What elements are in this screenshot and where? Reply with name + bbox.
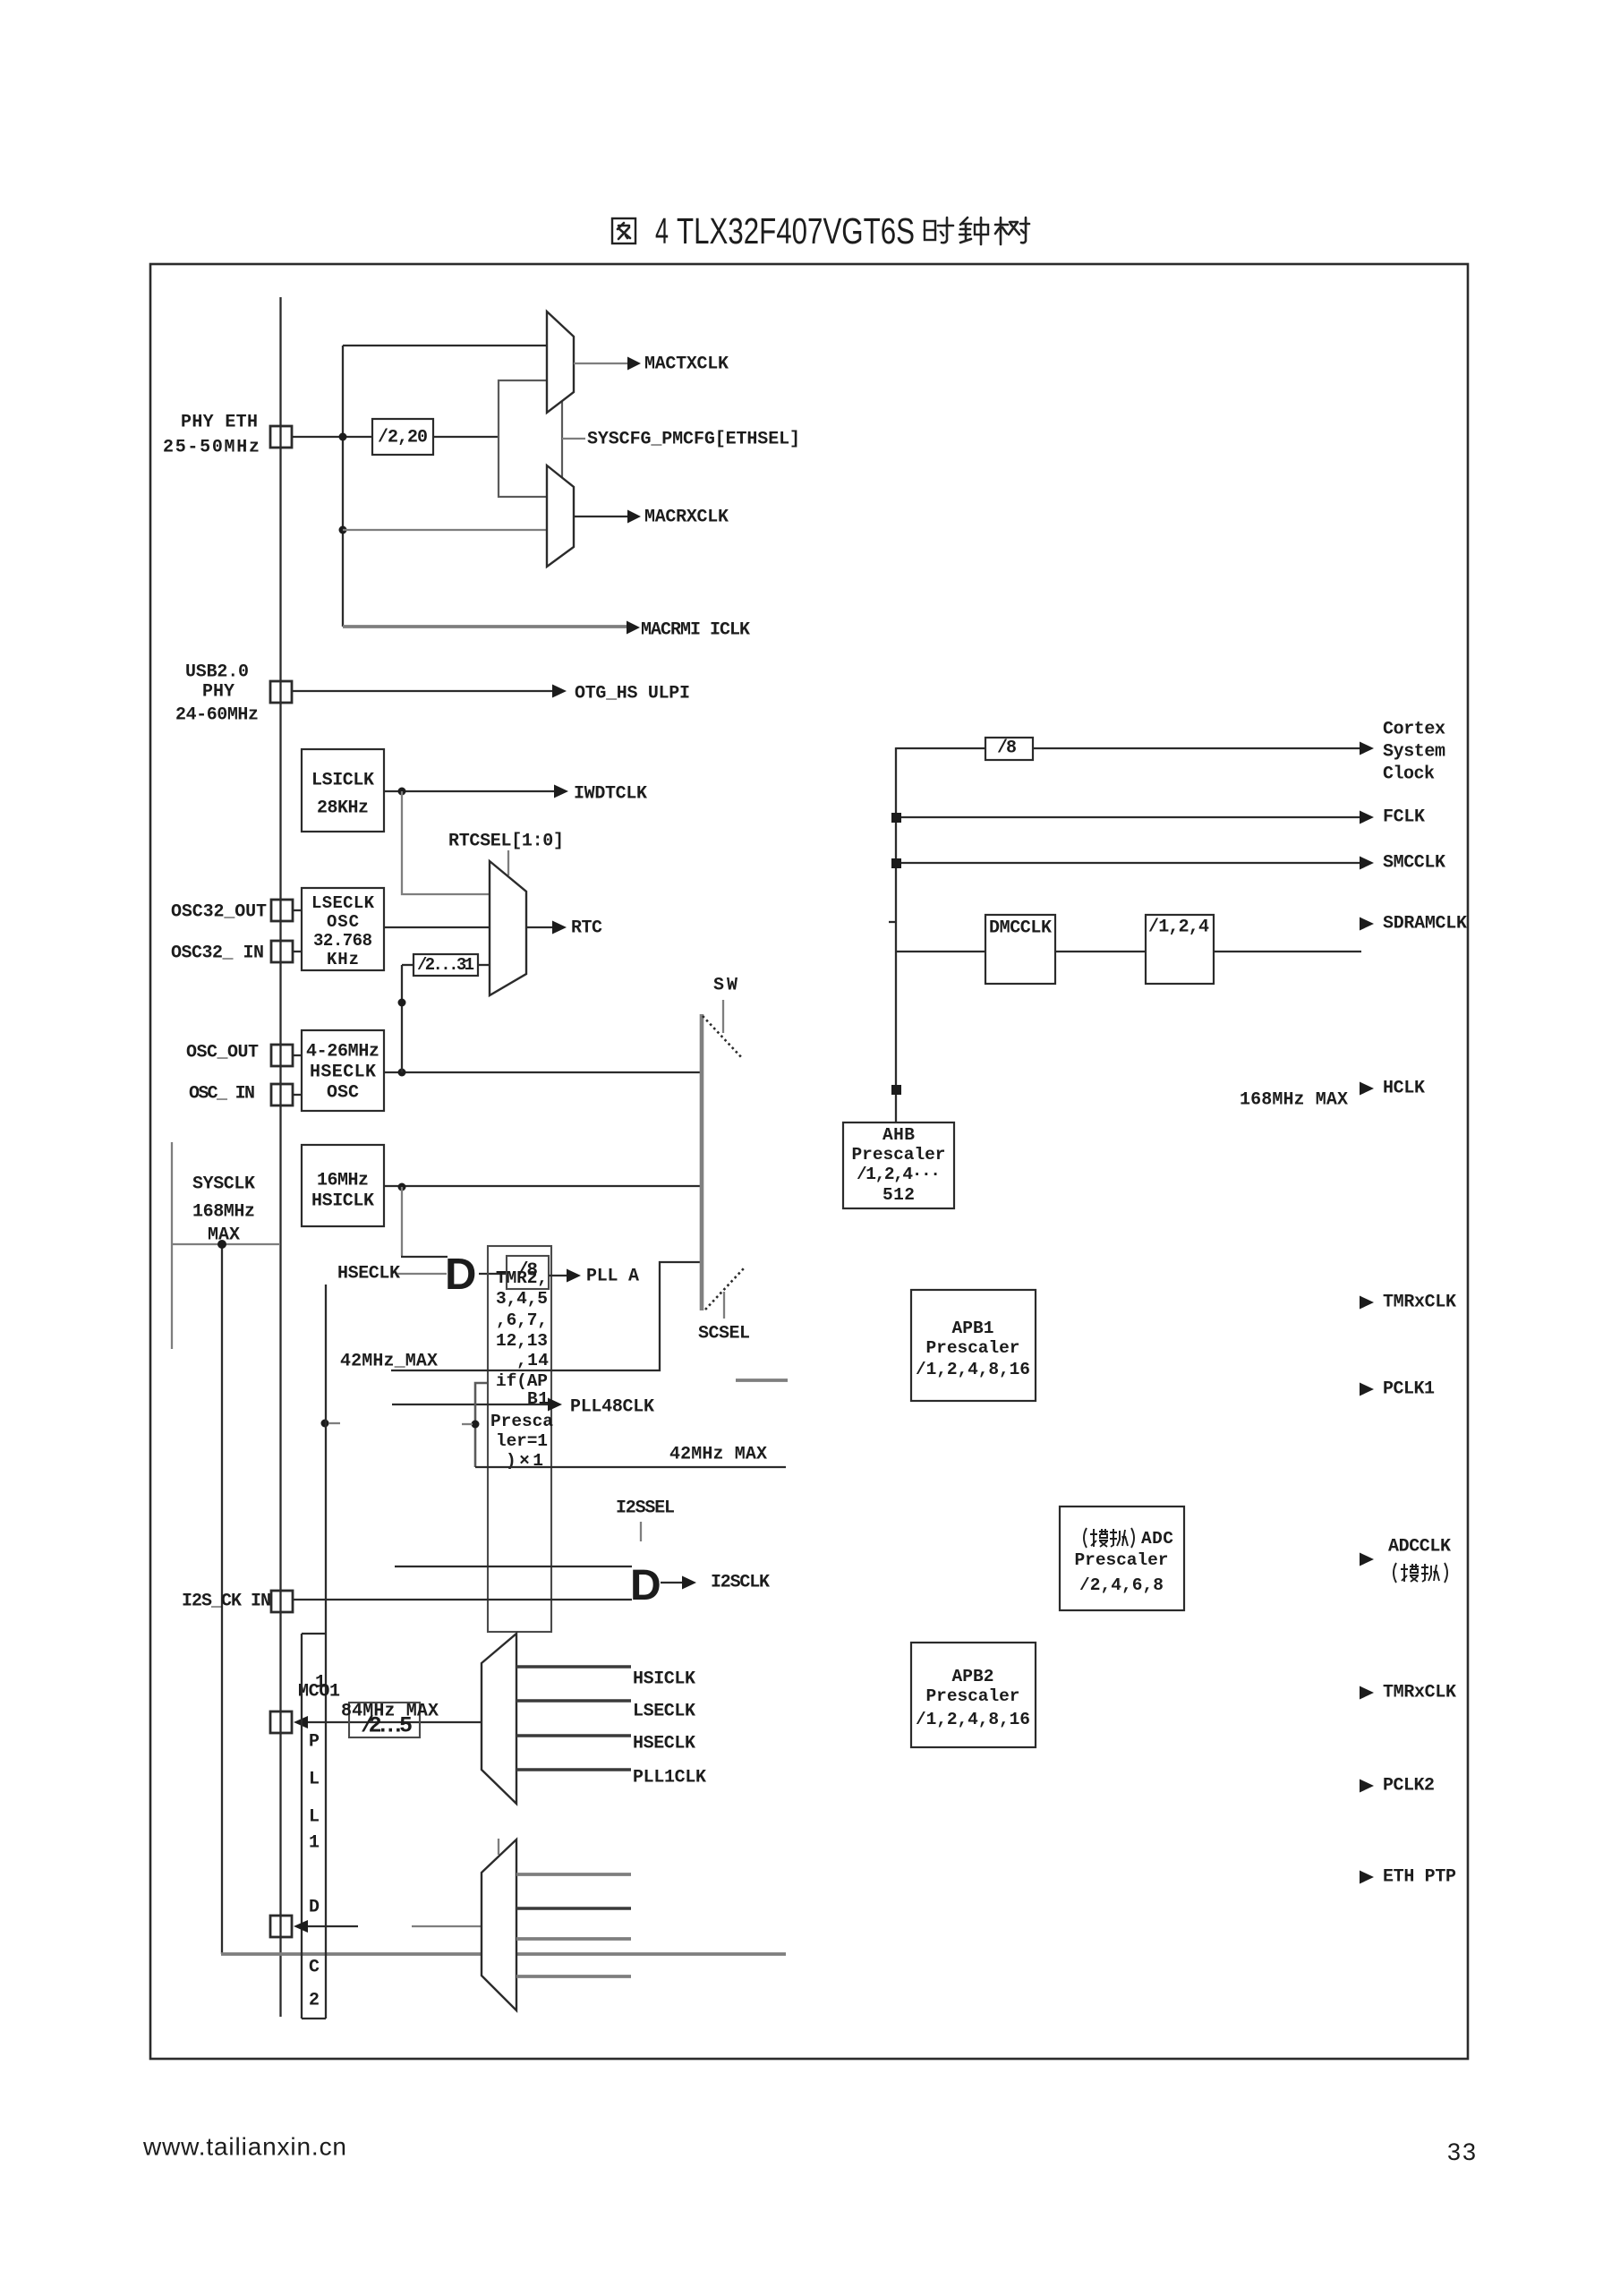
svg-text:LSECLK: LSECLK (311, 893, 375, 913)
wire MCO2 output (294, 1920, 308, 1933)
glyph 钟 (959, 218, 971, 243)
svg-text:MACRMI ICLK: MACRMI ICLK (641, 620, 750, 641)
wire PLL48CLK (392, 1404, 548, 1405)
svg-text:HSECLK: HSECLK (337, 1264, 400, 1285)
svg-text:Clock: Clock (1383, 764, 1435, 785)
svg-text:HSICLK: HSICLK (633, 1669, 695, 1690)
wire gray stub right (736, 1378, 788, 1382)
svg-text:512: 512 (882, 1185, 915, 1205)
svg-text:/1,2,4,8,16: /1,2,4,8,16 (916, 1360, 1030, 1379)
svg-text:24-60MHz: 24-60MHz (175, 705, 259, 726)
svg-text:MCO1: MCO1 (298, 1682, 340, 1703)
label MCO2 pad (270, 1916, 292, 1937)
svg-text:HSECLK: HSECLK (633, 1734, 695, 1754)
svg-text:I2SSEL: I2SSEL (616, 1498, 675, 1519)
block divider /8 small box (507, 1256, 549, 1289)
mux MCO2 (482, 1839, 516, 2010)
svg-text:OSC: OSC (327, 912, 359, 932)
svg-text:KHz: KHz (327, 950, 359, 969)
svg-text:42MHz_MAX: 42MHz_MAX (340, 1352, 438, 1372)
svg-text:www.tailianxin.cn: www.tailianxin.cn (142, 2133, 346, 2161)
pad OSC_OUT (271, 1045, 293, 1066)
svg-text:/1,2,4···: /1,2,4··· (857, 1165, 941, 1184)
wire ETH branch vertical (342, 346, 344, 627)
block 16MHz HSICLK (302, 1145, 384, 1226)
wire HSE up to divider (401, 965, 403, 1072)
mux MACRXCLK (547, 465, 574, 567)
node ETHSEL select rect (499, 380, 562, 497)
svg-text:33: 33 (1447, 2138, 1476, 2165)
svg-text:TMRxCLK: TMRxCLK (1383, 1683, 1456, 1703)
wire PCLK1 (1360, 1383, 1374, 1396)
wire I2SCLK (661, 1582, 682, 1583)
svg-text:RTC: RTC (571, 918, 602, 939)
svg-text:/1,2,4,8,16: /1,2,4,8,16 (916, 1710, 1030, 1729)
svg-text:/2,4,6,8: /2,4,6,8 (1079, 1575, 1164, 1595)
svg-text:32.768: 32.768 (313, 931, 372, 951)
mux RTC RTCSEL (490, 861, 526, 995)
block 4-26MHz HSECLK OSC (302, 1030, 384, 1111)
wire IWDTCLK (384, 790, 554, 792)
wire PLL A output (549, 1275, 567, 1276)
svg-text:L: L (309, 1807, 320, 1828)
svg-text:OSC_ IN: OSC_ IN (189, 1084, 255, 1105)
svg-text:3,4,5: 3,4,5 (496, 1289, 548, 1309)
svg-text:12,13: 12,13 (496, 1331, 548, 1351)
mux SW selector dash (703, 1016, 743, 1059)
svg-text:,14: ,14 (516, 1351, 549, 1370)
block divider /2,20 (372, 419, 433, 455)
svg-text:,6,7,: ,6,7, (496, 1310, 548, 1330)
node SDRAM tick (889, 921, 896, 923)
svg-text:/8: /8 (997, 738, 1017, 759)
svg-text:SDRAMCLK: SDRAMCLK (1383, 914, 1467, 935)
pad MCO1 (270, 1711, 292, 1733)
svg-text:B1: B1 (527, 1389, 549, 1409)
label PLL1 D C2 vertical (309, 1732, 320, 2011)
wire 42MHz line to SW (391, 1262, 702, 1370)
wire bottom long line (221, 1952, 786, 1956)
svg-text:PHY ETH: PHY ETH (181, 413, 258, 433)
wire SYSCLK tap (172, 1243, 280, 1245)
svg-text:/2...5: /2...5 (361, 1713, 413, 1739)
mux SCSEL selector dash (705, 1268, 744, 1310)
label SCSEL (723, 1292, 725, 1319)
wire PLL1 vertical line (325, 1285, 327, 2019)
svg-text:Prescaler: Prescaler (1075, 1550, 1169, 1570)
wire LSI to RTC mux (402, 791, 490, 894)
svg-text:PLL1CLK: PLL1CLK (633, 1768, 706, 1788)
svg-text:HSICLK: HSICLK (311, 1191, 374, 1212)
wire ETH PTP (1360, 1871, 1374, 1884)
wire ADCCLK (1360, 1553, 1374, 1566)
svg-text:Prescaler: Prescaler (926, 1338, 1020, 1358)
svg-text:if(AP: if(AP (496, 1371, 548, 1391)
block DMCCLK (985, 915, 1055, 984)
block divider /1,2,4 (1146, 915, 1214, 984)
label SYSCLK 168MHz MAX (171, 1142, 173, 1349)
wire MCO2 mux inputs (516, 1873, 631, 1876)
wire I2S upper input (395, 1566, 632, 1567)
svg-text:OSC32_ IN: OSC32_ IN (171, 943, 264, 964)
svg-text:D: D (445, 1250, 476, 1299)
wire APB1 feedback bracket (475, 1383, 487, 1467)
wire HSECLK to SW (384, 1071, 702, 1073)
svg-text:LSECLK: LSECLK (633, 1702, 695, 1722)
wire to MACTX mux (343, 345, 547, 346)
svg-text:C: C (309, 1958, 320, 1978)
svg-text:TMRxCLK: TMRxCLK (1383, 1293, 1456, 1313)
svg-text:16MHz: 16MHz (317, 1171, 369, 1191)
block APB2 Prescaler (911, 1643, 1036, 1747)
svg-text:4-26MHz: 4-26MHz (306, 1042, 379, 1063)
svg-text:L: L (309, 1770, 320, 1790)
svg-text:PLL48CLK: PLL48CLK (570, 1397, 654, 1418)
svg-text:MACRXCLK: MACRXCLK (644, 508, 729, 528)
svg-text:HSECLK: HSECLK (310, 1063, 376, 1083)
svg-text:OSC_OUT: OSC_OUT (186, 1043, 259, 1063)
block PLL tall box (488, 1246, 551, 1632)
svg-text:/2...31: /2...31 (417, 955, 474, 975)
wire to MACRX mux (343, 529, 547, 531)
svg-text:SCSEL: SCSEL (698, 1324, 750, 1344)
svg-text:168MHz: 168MHz (192, 1202, 255, 1223)
wire TMRxCLK 2 (1360, 1686, 1374, 1700)
wire SDRAMCLK (1360, 918, 1374, 931)
mux SW body (700, 1014, 704, 1310)
svg-text:ADC: ADC (1141, 1529, 1173, 1549)
svg-text:42MHz MAX: 42MHz MAX (669, 1445, 767, 1465)
pad OSC_IN (271, 1084, 293, 1105)
wire MACRMIICLK (343, 625, 627, 628)
svg-text:/2,20: /2,20 (378, 428, 428, 448)
wire I2S_CK to gate (293, 1599, 632, 1600)
wire HCLK (891, 1085, 901, 1095)
svg-text:RTCSEL[1:0]: RTCSEL[1:0] (448, 832, 564, 852)
wire main input bus (279, 297, 281, 2017)
title 图 4 TLX32F407VGT6S 时钟树 (612, 218, 1029, 244)
svg-text:D: D (309, 1898, 320, 1918)
wire LSE to RTC mux (384, 926, 490, 928)
glyph 树 (995, 218, 1029, 244)
wire HCLK bus vertical (895, 747, 897, 1122)
wire 42MHz MAX second (475, 1466, 786, 1468)
svg-text:1: 1 (309, 1833, 320, 1854)
svg-text:HCLK: HCLK (1383, 1079, 1425, 1099)
svg-text:OSC32_OUT: OSC32_OUT (171, 902, 267, 923)
block AHB Prescaler (843, 1122, 954, 1208)
svg-text:25-50MHz: 25-50MHz (163, 438, 260, 458)
block divider /2...31 (402, 964, 414, 966)
block divider /2...5 (349, 1703, 420, 1737)
wire Cortex System Clock (896, 747, 1360, 749)
svg-text:USB2.0: USB2.0 (185, 662, 249, 683)
svg-text:SMCCLK: SMCCLK (1383, 853, 1445, 874)
wire OTG_HS ULPI (293, 690, 552, 692)
block LSICLK 28KHz (302, 749, 384, 832)
svg-text:OSC: OSC (327, 1083, 359, 1104)
mux MACTXCLK (547, 312, 574, 413)
svg-text:APB2: APB2 (952, 1667, 994, 1686)
block PLL1DC2 narrow box (301, 1634, 303, 2019)
svg-text:System: System (1383, 742, 1445, 763)
svg-text:PLL A: PLL A (586, 1267, 639, 1287)
wire HSICLK to SW (384, 1185, 702, 1187)
svg-text:/1,2,4: /1,2,4 (1148, 918, 1209, 938)
label (moni) under ADCCLK (1394, 1563, 1447, 1583)
svg-text:DMCCLK: DMCCLK (989, 918, 1052, 939)
pad PHY ETH (270, 426, 292, 448)
svg-text:PCLK1: PCLK1 (1383, 1379, 1435, 1400)
svg-text:PCLK2: PCLK2 (1383, 1776, 1435, 1797)
svg-text:LSICLK: LSICLK (311, 771, 374, 791)
svg-text:P: P (309, 1732, 320, 1753)
svg-text:28KHz: 28KHz (317, 798, 369, 819)
wire FCLK (896, 816, 1360, 818)
block LSECLK OSC 32.768 KHz (302, 888, 384, 970)
svg-text:SYSCLK: SYSCLK (192, 1174, 255, 1195)
block APB1 Prescaler (911, 1290, 1036, 1401)
block ADC Prescaler (1060, 1506, 1184, 1610)
svg-text:FCLK: FCLK (1383, 807, 1425, 828)
svg-text:MACTXCLK: MACTXCLK (644, 354, 729, 375)
label PLL note text (490, 1268, 553, 1471)
wire HSI down to PLL gate (401, 1187, 403, 1256)
svg-text:SW: SW (713, 976, 738, 996)
wire MCO1 mux inputs (516, 1665, 631, 1669)
svg-text:D: D (630, 1562, 661, 1609)
pad USB2.0 PHY (270, 681, 292, 703)
svg-text:TLX32F407VGT6S: TLX32F407VGT6S (677, 210, 915, 252)
wire TMRxCLK (1360, 1296, 1374, 1310)
svg-text:IWDTCLK: IWDTCLK (574, 784, 647, 805)
wire MCO1 output (294, 1716, 308, 1728)
label (moni)ADC in box (1084, 1528, 1134, 1548)
svg-text:ETH PTP: ETH PTP (1383, 1867, 1456, 1888)
svg-text:I2SCLK: I2SCLK (711, 1573, 770, 1593)
svg-text:Prescaler: Prescaler (926, 1686, 1020, 1706)
svg-text:ADCCLK: ADCCLK (1388, 1537, 1451, 1558)
svg-text:AHB: AHB (882, 1125, 915, 1145)
wire SYSCLK down-line (221, 1244, 223, 1954)
svg-text:4: 4 (655, 210, 669, 252)
svg-text:PHY: PHY (202, 682, 234, 703)
wire PHY ETH to divider (292, 436, 372, 438)
svg-text:SYSCFG_PMCFG[ETHSEL]: SYSCFG_PMCFG[ETHSEL] (587, 430, 800, 450)
svg-text:OTG_HS ULPI: OTG_HS ULPI (575, 684, 690, 704)
pad OSC32_OUT (271, 900, 293, 921)
mux MCO1 (482, 1634, 516, 1804)
pad I2S_CK IN (271, 1591, 293, 1612)
glyph 图 (612, 218, 635, 243)
svg-text:2: 2 (309, 1991, 320, 2011)
wire SMCCLK (896, 862, 1360, 864)
svg-text:Prescaler: Prescaler (852, 1145, 946, 1165)
glyph 时 (925, 221, 935, 240)
svg-text:I2S_CK IN: I2S_CK IN (182, 1592, 271, 1612)
svg-text:Presca: Presca (490, 1412, 553, 1431)
svg-text:Cortex: Cortex (1383, 720, 1445, 740)
pad OSC32_IN (271, 941, 293, 962)
svg-text:TMR2,: TMR2, (496, 1268, 548, 1288)
svg-text:APB1: APB1 (952, 1319, 994, 1338)
svg-text:ler=1: ler=1 (496, 1431, 548, 1451)
wire PCLK2 (1360, 1780, 1374, 1793)
svg-text:168MHz MAX: 168MHz MAX (1240, 1090, 1348, 1111)
